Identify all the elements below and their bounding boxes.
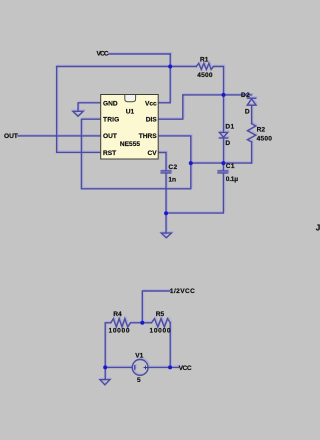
junction V1 left node (103, 365, 107, 369)
svg-text:VCC: VCC (97, 51, 109, 58)
svg-text:1/2VCC: 1/2VCC (170, 288, 195, 295)
svg-text:R1: R1 (200, 56, 209, 63)
svg-text:GND: GND (103, 100, 118, 107)
wire bottom node horizontal (191, 162, 252, 164)
svg-text:D1: D1 (225, 124, 234, 131)
svg-text:RST: RST (103, 150, 116, 157)
svg-text:OUT: OUT (103, 133, 117, 140)
svg-text:TRIG: TRIG (103, 117, 119, 124)
svg-text:VCC: VCC (179, 365, 192, 372)
capacitor C1 plates (218, 171, 228, 173)
svg-text:C1: C1 (226, 163, 235, 170)
wire ground lead (bottom) (104, 367, 106, 379)
wire D1 bottom lead (223, 138, 225, 163)
junction THRS node (189, 161, 193, 165)
wire halo layer (19, 53, 257, 384)
junction R5/V1 node (168, 365, 172, 369)
svg-text:U1: U1 (126, 108, 135, 115)
capacitor C2 plates (161, 171, 171, 173)
voltage source V1 (132, 360, 148, 376)
svg-text:R5: R5 (156, 311, 165, 318)
wire OUT (18, 135, 101, 137)
capacitor C1 top lead (222, 163, 224, 170)
resistor R5 (152, 319, 171, 327)
wire VCC feed horizontal (109, 53, 170, 55)
ground (bottom) (100, 380, 110, 385)
op-amp U1 body (NE555) (101, 95, 159, 160)
svg-text:5: 5 (137, 377, 141, 384)
ground (GND pin) (73, 111, 83, 116)
svg-text:THRS: THRS (139, 133, 158, 140)
V1 plus mark (144, 366, 148, 370)
wire R5 right lead corner (169, 323, 171, 368)
resistor R1 (196, 63, 213, 69)
wire R4-R5 link (131, 322, 152, 324)
svg-text:R2: R2 (257, 126, 266, 133)
capacitor C1 bottom lead (166, 173, 223, 213)
wire RST-VCC rail (57, 66, 197, 68)
resistor R2 (247, 124, 255, 142)
diode D2 cathode bar (247, 97, 255, 99)
svg-text:Vcc: Vcc (145, 100, 157, 107)
wire CV stub (158, 153, 166, 171)
svg-text:C2: C2 (168, 164, 177, 171)
V1 minus mark (134, 366, 136, 370)
svg-text:10000: 10000 (150, 327, 171, 334)
wire V1 right lead to VCC (148, 366, 178, 368)
svg-text:1n: 1n (168, 176, 176, 183)
svg-text:D: D (225, 140, 230, 147)
svg-text:OUT: OUT (4, 133, 18, 140)
wire R1 right lead and corner down (213, 67, 223, 95)
svg-text:R4: R4 (113, 311, 122, 318)
ground (main) (161, 233, 171, 238)
wire TRIG return (81, 119, 190, 189)
svg-text:DIS: DIS (146, 117, 158, 124)
resistor R4 (111, 319, 131, 327)
svg-text:4500: 4500 (257, 135, 273, 142)
wire left branch down (104, 323, 106, 368)
svg-text:V1: V1 (135, 353, 143, 360)
junction VCC rail (168, 65, 172, 69)
diode D1 triangle (219, 132, 227, 137)
junction C1 top node (221, 161, 225, 165)
svg-text:Ju: Ju (316, 223, 320, 232)
junction ground node (164, 211, 168, 215)
wire RST stub (57, 67, 101, 153)
capacitor C2 bottom lead (165, 173, 167, 233)
wire VCC feed vertical to U1 Vcc pin (169, 54, 171, 103)
svg-text:D: D (245, 109, 250, 116)
diode D2 triangle (247, 99, 256, 105)
wire DIS stub (158, 95, 183, 119)
wire Vcc pin stub (158, 102, 170, 104)
wire R2 bottom lead (251, 142, 253, 163)
svg-text:4500: 4500 (197, 72, 213, 79)
svg-text:D2: D2 (241, 92, 250, 99)
svg-text:CV: CV (148, 150, 158, 157)
junction R4/R5 mid node (140, 321, 144, 325)
svg-text:0.1µ: 0.1µ (226, 176, 238, 183)
U1 notch (125, 95, 136, 102)
svg-text:NE555: NE555 (120, 141, 140, 148)
diode D1 lead from top (223, 95, 225, 132)
wire GND pin stub (78, 103, 101, 112)
diode D1 cathode bar (219, 137, 227, 139)
wire 1/2VCC feed (142, 291, 170, 323)
junction R1/D1/D2 node (222, 93, 226, 97)
wire V1 left lead (105, 366, 132, 368)
svg-text:10000: 10000 (109, 327, 130, 334)
wire THRS stub (158, 136, 191, 189)
wire top node horizontal (183, 94, 252, 96)
wire R4 left lead (105, 322, 111, 324)
wire D2 to R2 (251, 105, 253, 123)
